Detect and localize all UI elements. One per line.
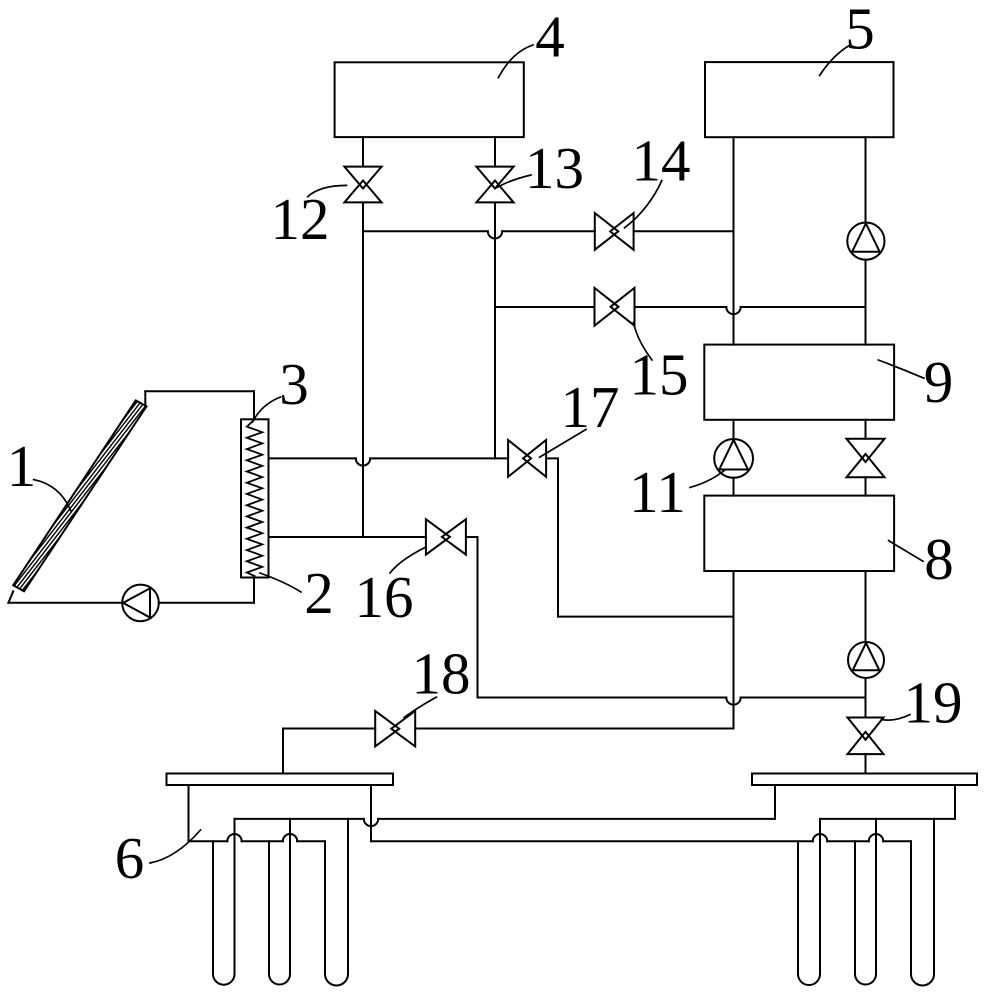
svg-text:2: 2: [304, 560, 334, 626]
svg-text:19: 19: [904, 670, 963, 736]
svg-text:11: 11: [629, 459, 686, 525]
svg-text:9: 9: [924, 349, 954, 415]
svg-text:1: 1: [7, 433, 37, 499]
svg-text:8: 8: [924, 526, 954, 592]
svg-text:13: 13: [525, 135, 584, 201]
svg-text:6: 6: [115, 825, 145, 891]
svg-text:16: 16: [355, 564, 414, 630]
svg-text:3: 3: [279, 351, 309, 417]
svg-text:5: 5: [845, 0, 875, 62]
svg-text:14: 14: [632, 128, 691, 194]
svg-text:12: 12: [271, 186, 330, 252]
svg-text:15: 15: [630, 342, 689, 408]
svg-text:4: 4: [535, 4, 565, 70]
svg-text:17: 17: [561, 374, 620, 440]
svg-text:18: 18: [412, 641, 471, 707]
